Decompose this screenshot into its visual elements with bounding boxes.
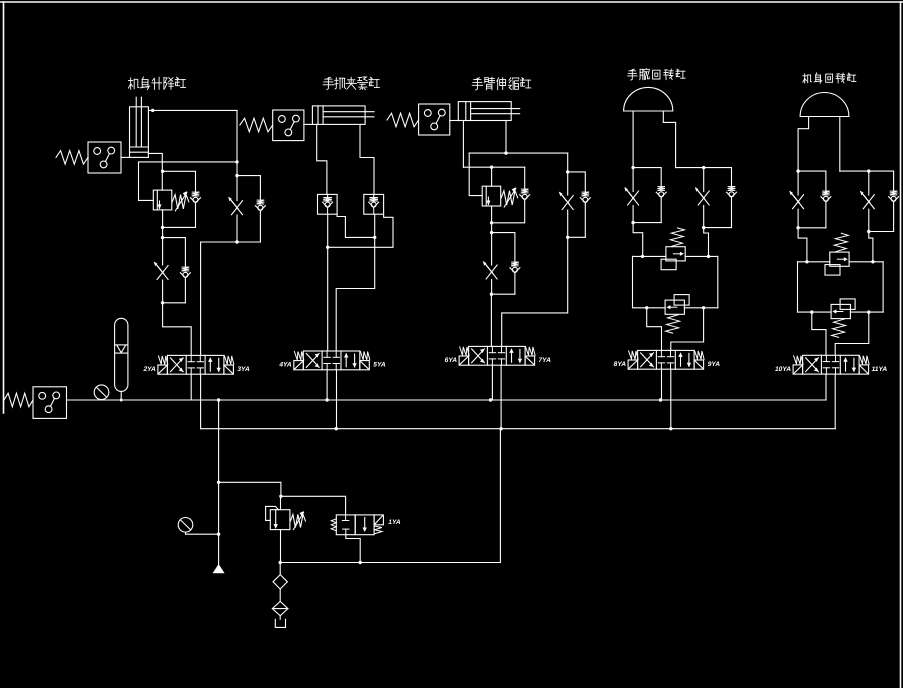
limit switch relay B2 w/ spring xyxy=(240,110,313,141)
bypass check loop around sequence valve 1 xyxy=(161,170,201,238)
wire valve3 ports to buses xyxy=(492,365,501,429)
valve 6YA/7YA xyxy=(445,346,551,365)
svg-text:8YA: 8YA xyxy=(614,361,627,368)
throttle+check loop branch3 lower xyxy=(483,231,520,346)
accumulator xyxy=(115,318,128,401)
wire B2 left outlet to valve2 xyxy=(326,214,329,351)
filter on drain xyxy=(272,589,288,616)
svg-text:5YA: 5YA xyxy=(373,362,386,369)
svg-text:3YA: 3YA xyxy=(237,366,250,373)
side drops branch5 xyxy=(798,262,884,312)
valve 10YA/11YA xyxy=(775,355,887,374)
wire cyl1 top port to right drop xyxy=(148,109,238,176)
pump riser xyxy=(217,400,220,565)
pressure gauge on P line xyxy=(94,385,109,400)
throttle+check loop branch4 right xyxy=(676,166,737,256)
wire valve4 ports to buses xyxy=(662,369,671,429)
pilot check valve B2 left xyxy=(318,194,338,214)
wire branch5 to valve5 xyxy=(812,312,869,355)
throttle+check loop branch1 right xyxy=(201,174,266,355)
lower rail branch5 + counterbalance valve xyxy=(798,299,884,338)
side drops branch4 xyxy=(633,256,718,307)
pilot cross line right-to-left xyxy=(328,214,393,247)
pilot check valve B2 right xyxy=(364,194,384,214)
cylinder 手抓夹紧缸 (horizontal) xyxy=(312,106,374,125)
check valve (diamond) on drain xyxy=(273,563,287,590)
label 手臂伸缩缸 xyxy=(472,77,531,90)
pressure relay on P line w/ spring xyxy=(4,387,67,419)
label 手腕回转缸 xyxy=(628,69,686,80)
wire branch4 to valve4 xyxy=(647,308,704,351)
throttle+check loop branch4 left xyxy=(624,166,666,256)
svg-text:1YA: 1YA xyxy=(388,519,401,526)
wire valve2 ports to buses xyxy=(327,370,336,429)
svg-text:9YA: 9YA xyxy=(708,361,721,368)
upper rail branch5 + counterbalance valve xyxy=(798,233,884,275)
svg-text:6YA: 6YA xyxy=(445,357,458,364)
svg-text:10YA: 10YA xyxy=(775,366,791,373)
wire dome5 legs xyxy=(798,117,840,172)
svg-text:11YA: 11YA xyxy=(872,366,888,373)
wire pilot line branch1 xyxy=(139,162,238,201)
label 手抓夹紧缸 xyxy=(323,77,379,90)
tank symbol xyxy=(275,616,285,628)
wire dome4 legs xyxy=(633,111,676,168)
pump suction arrow xyxy=(213,564,225,573)
rotary actuator 机身回转缸 (dome) xyxy=(800,92,849,116)
wire valve5 ports to buses xyxy=(826,374,835,429)
wire riser to relief valve xyxy=(219,482,283,498)
limit switch relay B3 w/ spring xyxy=(387,104,458,135)
sequence valve branch3 loop xyxy=(463,166,529,233)
valve 8YA/9YA xyxy=(614,350,721,369)
upper rail branch4 + counterbalance valve xyxy=(633,228,718,270)
lower rail branch4 + counterbalance valve xyxy=(633,295,718,334)
rotary actuator 手腕回转缸 (dome) xyxy=(624,87,673,111)
svg-text:7YA: 7YA xyxy=(539,357,552,364)
pilot cross line left-to-right xyxy=(337,214,375,237)
wire B2 right outlet to valve2 xyxy=(336,214,376,351)
wire cyl3 left port down xyxy=(462,121,464,168)
label 机身升降缸 xyxy=(128,77,185,90)
limit switch relay B1 w/ spring xyxy=(56,142,130,173)
cylinder 手臂伸缩缸 (horizontal) xyxy=(458,102,519,121)
valve 2YA/3YA xyxy=(142,355,250,374)
cylinder 机身升降缸 (vertical) xyxy=(130,97,149,157)
throttle+check loop branch5 left xyxy=(789,169,831,261)
tank drain line xyxy=(279,429,501,565)
P pressure bus xyxy=(67,398,827,401)
unloading valve 1YA (2/2 solenoid) xyxy=(331,515,401,535)
label 机身回转缸 xyxy=(803,73,856,83)
valve 4YA/5YA xyxy=(278,351,386,370)
throttle+check loop branch3 right xyxy=(502,153,591,346)
svg-text:2YA: 2YA xyxy=(142,366,156,373)
T return bus xyxy=(201,427,836,430)
sequence valve branch1 xyxy=(153,190,189,211)
lower pressure gauge xyxy=(178,518,220,536)
throttle+check loop branch5 right xyxy=(840,169,899,261)
wire cyl2 left port down xyxy=(317,124,327,194)
throttle+check loop branch1 left xyxy=(154,236,191,355)
wire cyl2 right port down xyxy=(360,124,374,194)
wire 1YA bottom port xyxy=(346,535,360,563)
wire to 1YA valve xyxy=(281,496,346,515)
wire cyl3 right port down + cross line xyxy=(469,121,568,196)
svg-text:4YA: 4YA xyxy=(278,362,292,369)
wire valve1 ports to buses xyxy=(191,374,200,429)
wire cyl1 bottom port down xyxy=(148,153,162,190)
relief valve xyxy=(266,496,306,562)
